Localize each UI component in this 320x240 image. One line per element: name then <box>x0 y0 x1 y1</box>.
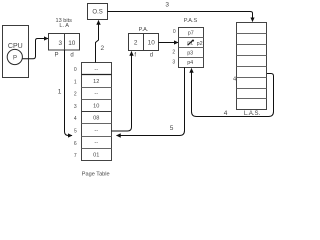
svg-text:2: 2 <box>100 45 104 52</box>
svg-text:08: 08 <box>93 116 99 122</box>
svg-text:4: 4 <box>74 116 77 122</box>
svg-text:01: 01 <box>93 152 99 158</box>
register P.A. box <box>129 34 159 51</box>
svg-text:5: 5 <box>170 125 174 132</box>
P.A. divider <box>143 34 145 51</box>
register L.A. box <box>49 34 80 51</box>
svg-text:2: 2 <box>172 49 175 55</box>
svg-text:Page Table: Page Table <box>82 171 110 177</box>
svg-text:p2: p2 <box>197 41 203 47</box>
svg-text:1: 1 <box>58 89 62 96</box>
svg-text:5: 5 <box>74 128 77 134</box>
wire 4: L.A.S to P.A.S <box>192 69 274 117</box>
svg-text:7: 7 <box>74 153 77 159</box>
svg-text:O.S: O.S <box>92 10 102 16</box>
svg-text:--: -- <box>94 91 98 97</box>
svg-text:3: 3 <box>59 40 63 47</box>
svg-text:0: 0 <box>74 67 77 73</box>
svg-text:--: -- <box>94 128 98 134</box>
L.A.S table <box>237 23 267 110</box>
svg-text:p3: p3 <box>187 51 193 57</box>
P.A.S table <box>179 28 204 68</box>
P.A.S contents <box>187 30 194 66</box>
svg-text:L.A.S.: L.A.S. <box>244 111 261 117</box>
svg-text:--: -- <box>94 67 98 73</box>
svg-text:P: P <box>54 52 58 58</box>
svg-text:3: 3 <box>74 104 77 110</box>
CPU box <box>3 26 29 78</box>
page table grid <box>82 63 112 161</box>
O.S box <box>88 4 108 20</box>
register P circle <box>7 49 22 64</box>
svg-text:2: 2 <box>74 92 77 98</box>
svg-text:P: P <box>13 56 17 62</box>
wire P.A. to P.A.S <box>159 42 179 44</box>
svg-text:12: 12 <box>93 79 99 85</box>
svg-text:d: d <box>70 52 73 58</box>
wire 1: L.A. to page table <box>65 50 73 136</box>
svg-text:2: 2 <box>134 40 138 47</box>
P.A.S row indices <box>172 29 176 65</box>
svg-text:10: 10 <box>93 103 99 109</box>
svg-text:L. A: L. A <box>59 23 69 29</box>
page table contents <box>93 67 99 159</box>
page table row indices <box>74 67 77 159</box>
wire 3: O.S to L.A.S <box>108 12 253 22</box>
L.A. divider <box>64 34 66 51</box>
svg-text:--: -- <box>94 140 98 146</box>
wire 5: P.A.S to page table <box>117 68 185 136</box>
svg-text:p4: p4 <box>187 60 193 66</box>
svg-text:10: 10 <box>68 40 76 47</box>
svg-text:0: 0 <box>173 29 176 35</box>
wire CPU to L.A. <box>22 39 48 59</box>
svg-text:d: d <box>150 53 153 59</box>
svg-text:P.A.: P.A. <box>139 27 149 33</box>
svg-text:CPU: CPU <box>8 43 23 50</box>
svg-text:P.A.S: P.A.S <box>184 18 198 24</box>
svg-text:p7: p7 <box>188 30 194 36</box>
svg-text:6: 6 <box>74 141 77 147</box>
svg-text:3: 3 <box>165 2 169 9</box>
wire page table to P.A. f <box>112 52 132 132</box>
svg-text:4: 4 <box>233 76 236 82</box>
svg-text:1: 1 <box>74 79 77 85</box>
svg-text:10: 10 <box>148 40 156 47</box>
svg-text:3: 3 <box>172 60 175 66</box>
wire 2: page table to O.S <box>96 21 99 63</box>
svg-text:4: 4 <box>224 110 228 117</box>
